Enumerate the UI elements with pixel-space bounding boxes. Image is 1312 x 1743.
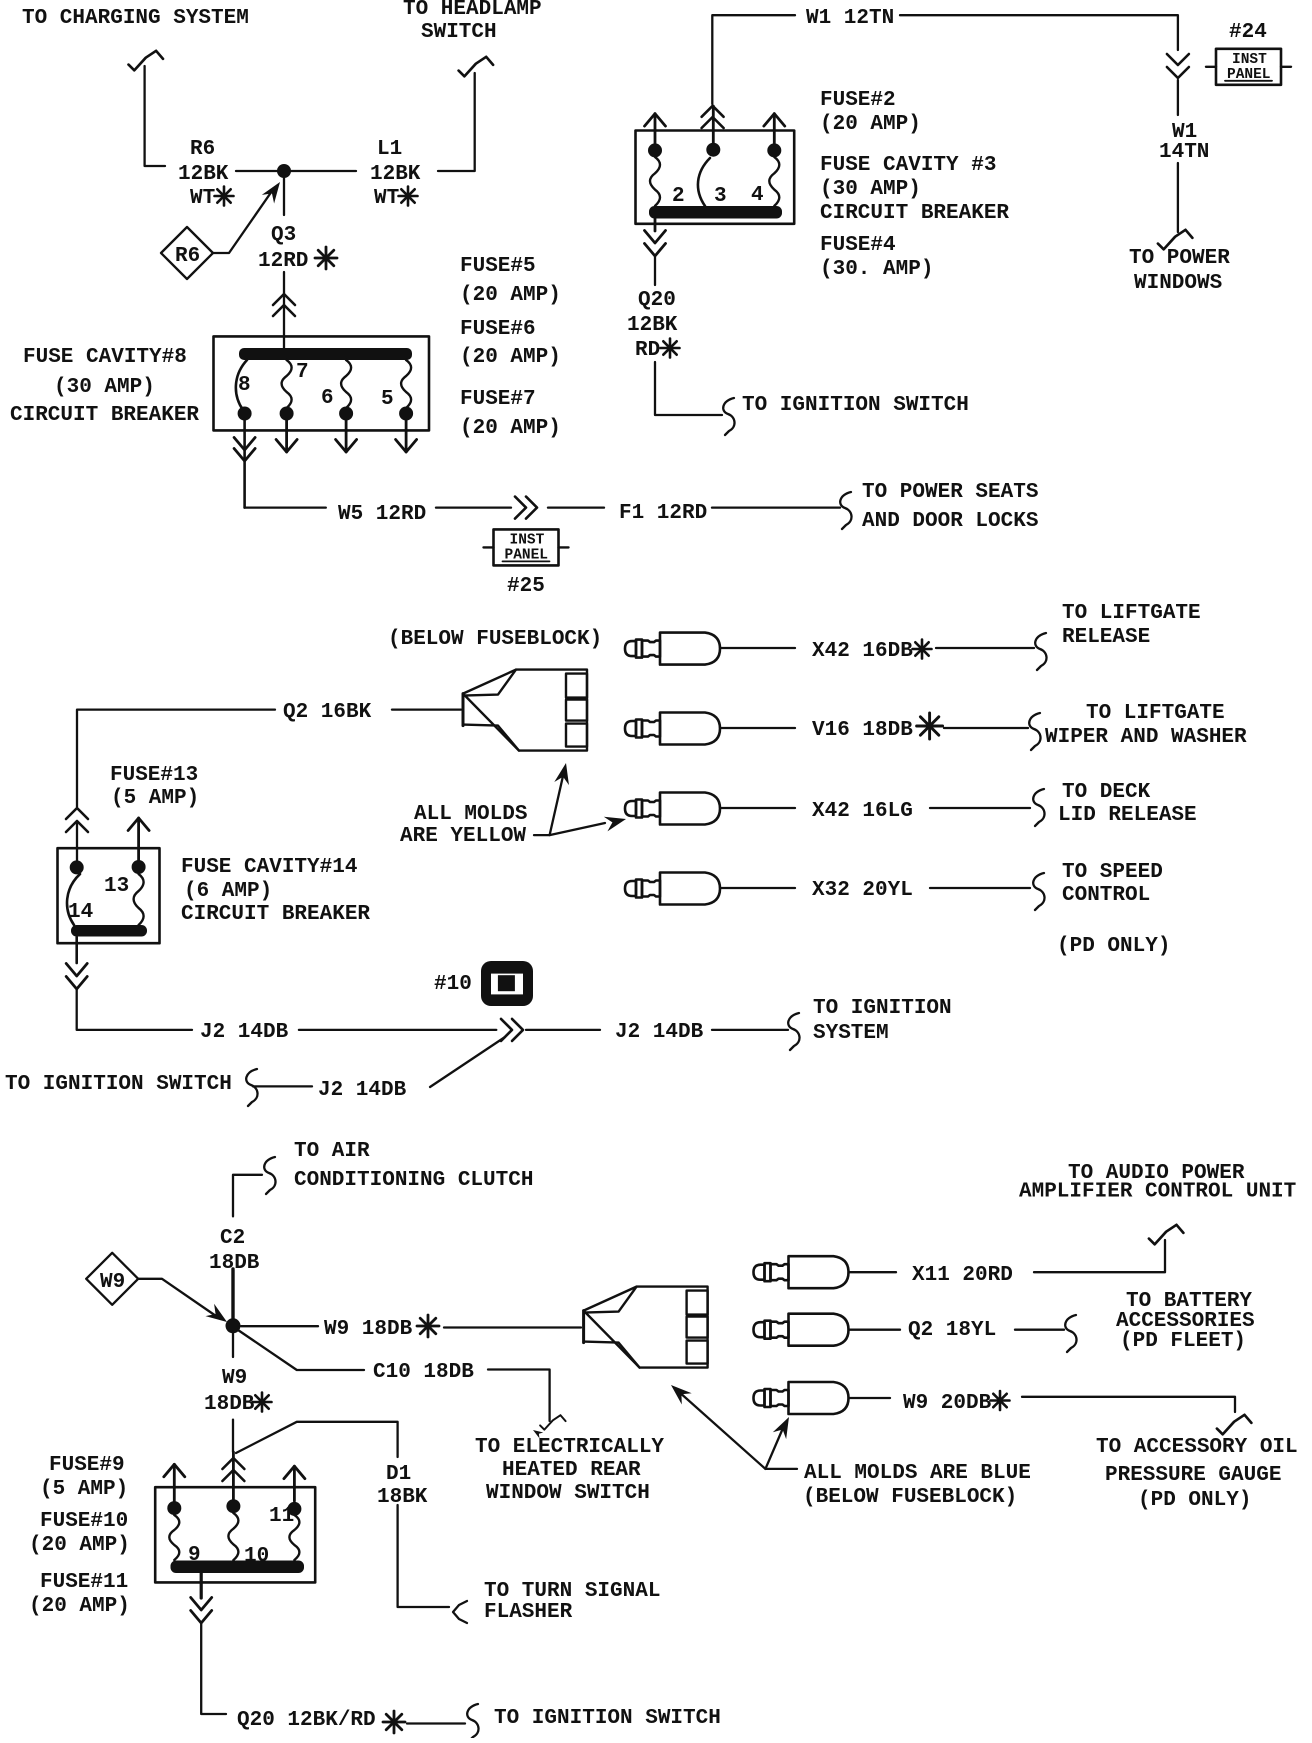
svg-text:J2 14DB: J2 14DB [318, 1079, 407, 1102]
arrow up fuse 13 [128, 818, 149, 860]
svg-text:HEATED REAR: HEATED REAR [502, 1459, 641, 1482]
label FUSE#2 (20 AMP) [820, 89, 921, 136]
svg-text:INST: INST [1232, 52, 1267, 68]
svg-text:FUSE#11: FUSE#11 [40, 1571, 128, 1594]
wire W9 18DB* down from junction [232, 1333, 234, 1452]
svg-text:FLASHER: FLASHER [484, 1601, 573, 1624]
svg-text:2: 2 [672, 185, 685, 208]
svg-text:ALL MOLDS: ALL MOLDS [414, 803, 527, 826]
label D1 18BK [377, 1463, 428, 1509]
wire C2 18DB with bracket [233, 1157, 276, 1216]
circuit breaker cavity 14 element [67, 874, 93, 925]
svg-text:FUSE#7: FUSE#7 [460, 388, 536, 411]
svg-text:FUSE#6: FUSE#6 [460, 318, 536, 341]
svg-text:Q2 16BK: Q2 16BK [283, 701, 372, 724]
bullet connector V16 18DB [625, 713, 795, 745]
svg-text:RD: RD [635, 339, 660, 362]
svg-text:(5 AMP): (5 AMP) [111, 787, 199, 810]
svg-text:WT: WT [374, 187, 399, 210]
node: TO AIR CONDITIONING CLUTCH [294, 1140, 533, 1192]
node: TO AUDIO POWER AMPLIFIER CONTROL UNIT [1019, 1162, 1296, 1204]
svg-text:PRESSURE GAUGE: PRESSURE GAUGE [1105, 1464, 1281, 1487]
svg-text:#24: #24 [1229, 21, 1267, 44]
arrows up fuse 2 and 4 [645, 114, 785, 145]
wire segment to inline connector [436, 497, 537, 519]
svg-text:J2 14DB: J2 14DB [200, 1021, 289, 1044]
label W1 12TN [806, 7, 894, 30]
svg-text:Q20: Q20 [638, 289, 676, 312]
fuse 6 element [321, 360, 351, 410]
label W1 14TN [1159, 121, 1209, 164]
fuse 11 element [269, 1505, 299, 1560]
label X11 20RD [912, 1264, 1013, 1287]
label J2 14DB (bottom) [318, 1079, 407, 1102]
svg-text:7: 7 [296, 361, 309, 384]
svg-text:(30. AMP): (30. AMP) [820, 258, 933, 281]
svg-text:W1 12TN: W1 12TN [806, 7, 894, 30]
svg-text:14: 14 [68, 901, 93, 924]
label V16 18DB * [812, 713, 943, 742]
svg-text:#10: #10 [434, 973, 472, 996]
node: TO IGNITION SWITCH (middle) with bracket [5, 1069, 258, 1106]
svg-text:FUSE#4: FUSE#4 [820, 234, 896, 257]
connector mold (yellow) 3-slot [463, 670, 587, 751]
svg-text:(6 AMP): (6 AMP) [184, 880, 272, 903]
svg-text:TO IGNITION SWITCH: TO IGNITION SWITCH [5, 1073, 232, 1096]
wire J2 14DB from block 3 [66, 937, 192, 1030]
label F1 12RD [619, 502, 707, 525]
svg-text:TO AIR: TO AIR [294, 1140, 370, 1163]
svg-text:12BK: 12BK [370, 163, 421, 186]
svg-text:LID RELEASE: LID RELEASE [1058, 804, 1197, 827]
label FUSE#6 (20 AMP) [460, 318, 561, 369]
node: TO DECK LID RELEASE [1058, 781, 1197, 827]
svg-text:10: 10 [244, 1545, 269, 1568]
svg-text:TO HEADLAMP: TO HEADLAMP [403, 0, 542, 21]
bullet connector X42 16LG [625, 793, 795, 825]
svg-text:CONTROL: CONTROL [1062, 884, 1150, 907]
fuse block 2: fuses 2,4 / cavity 3 [636, 131, 795, 224]
svg-text:FUSE#5: FUSE#5 [460, 255, 536, 278]
node: TO HEADLAMP SWITCH label [403, 0, 542, 44]
label X42 16LG [812, 800, 913, 823]
svg-text:TO LIFTGATE: TO LIFTGATE [1086, 702, 1225, 725]
svg-text:W9 18DB: W9 18DB [324, 1318, 413, 1341]
svg-text:FUSE#9: FUSE#9 [49, 1454, 125, 1477]
fuse terminal dots in block [238, 407, 414, 421]
label Q3 12RD * [258, 224, 337, 273]
fuse 9 element [169, 1515, 200, 1567]
svg-text:W5 12RD: W5 12RD [338, 503, 426, 526]
svg-text:C2: C2 [220, 1227, 245, 1250]
svg-text:CONDITIONING CLUTCH: CONDITIONING CLUTCH [294, 1169, 533, 1192]
label R6 12BK WT* [178, 138, 234, 210]
svg-text:V16 18DB: V16 18DB [812, 719, 913, 742]
svg-text:9: 9 [188, 1544, 201, 1567]
wire to liftgate wiper and washer [944, 713, 1041, 750]
svg-text:#25: #25 [507, 575, 545, 598]
svg-text:(20 AMP): (20 AMP) [29, 1534, 130, 1557]
svg-text:18DB: 18DB [204, 1393, 255, 1416]
svg-text:TO DECK: TO DECK [1062, 781, 1151, 804]
svg-text:12RD: 12RD [258, 250, 308, 273]
svg-text:12BK: 12BK [178, 163, 229, 186]
bullet connector Q2 18YL [754, 1314, 901, 1346]
svg-text:(20 AMP): (20 AMP) [460, 417, 561, 440]
svg-text:FUSE#10: FUSE#10 [40, 1510, 128, 1533]
wire W5 12RD from cavity 8 [234, 419, 326, 508]
wire to deck lid release [930, 789, 1045, 826]
svg-text:(5 AMP): (5 AMP) [40, 1478, 128, 1501]
svg-text:TO ACCESSORY OIL: TO ACCESSORY OIL [1096, 1436, 1298, 1459]
svg-text:INST: INST [510, 532, 545, 548]
wire W1 12TN horizontal [712, 15, 1178, 104]
arrows into bottom fuse block [164, 1452, 305, 1501]
bullet connector X42 16DB [625, 633, 795, 665]
svg-text:CIRCUIT BREAKER: CIRCUIT BREAKER [10, 404, 199, 427]
svg-text:CIRCUIT BREAKER: CIRCUIT BREAKER [181, 903, 370, 926]
svg-text:L1: L1 [377, 138, 402, 161]
svg-text:TO ELECTRICALLY: TO ELECTRICALLY [475, 1436, 664, 1459]
node: TO ELECTRICALLY HEATED REAR WINDOW SWITCH [475, 1436, 664, 1505]
wire to power windows with fork [1158, 163, 1193, 249]
connector mold (blue) 3-slot [584, 1287, 708, 1368]
svg-text:(PD FLEET): (PD FLEET) [1120, 1330, 1246, 1353]
svg-text:RELEASE: RELEASE [1062, 626, 1150, 649]
label W9 18DB* [204, 1367, 272, 1416]
terminal dots block 4 [167, 1499, 301, 1516]
inline connector chevrons on W1 [1167, 54, 1189, 115]
connector ref diamond W9 with arrow [86, 1253, 231, 1328]
connector ref diamond R6 with arrow to junction [161, 178, 286, 279]
wire to headlamp switch with off-page fork [438, 57, 493, 171]
node: TO CHARGING SYSTEM label [22, 7, 249, 30]
label X32 20YL [812, 879, 913, 902]
svg-text:(BELOW FUSEBLOCK): (BELOW FUSEBLOCK) [388, 628, 602, 651]
wire C10 18DB diagonal [238, 1330, 566, 1438]
svg-text:(BELOW FUSEBLOCK): (BELOW FUSEBLOCK) [803, 1486, 1017, 1509]
label J2 14DB (right) [615, 1021, 704, 1044]
svg-text:R6: R6 [175, 245, 200, 268]
wire W9 18DB to mold (right) [241, 1326, 581, 1327]
svg-text:12BK: 12BK [627, 314, 678, 337]
label ALL MOLDS ARE YELLOW with arrows [400, 761, 628, 848]
label Q20 12BK RD* [627, 289, 680, 362]
svg-text:AMPLIFIER CONTROL UNIT: AMPLIFIER CONTROL UNIT [1019, 1181, 1296, 1204]
label C10 18DB [373, 1361, 474, 1384]
svg-text:TO SPEED: TO SPEED [1062, 861, 1163, 884]
circuit breaker cavity 3 element [698, 158, 727, 208]
svg-text:TO LIFTGATE: TO LIFTGATE [1062, 602, 1201, 625]
svg-text:ALL MOLDS ARE BLUE: ALL MOLDS ARE BLUE [804, 1462, 1031, 1485]
svg-text:SYSTEM: SYSTEM [813, 1022, 889, 1045]
svg-text:Q2 18YL: Q2 18YL [908, 1319, 996, 1342]
label FUSE#5 (20 AMP) [460, 255, 561, 307]
terminal dots block 3 [70, 860, 146, 874]
wire to power seats with bracket [712, 492, 852, 529]
fuse terminal dots block 2 [648, 143, 781, 158]
svg-text:TO POWER SEATS: TO POWER SEATS [862, 481, 1038, 504]
svg-text:R6: R6 [190, 138, 215, 161]
label FUSE#11 (20 AMP) [29, 1571, 130, 1618]
arrow up cavity 3 with double chevron [702, 106, 724, 145]
svg-text:WINDOW SWITCH: WINDOW SWITCH [486, 1482, 650, 1505]
svg-text:WIPER AND WASHER: WIPER AND WASHER [1045, 726, 1247, 749]
label FUSE#13 (5 AMP) [110, 764, 199, 810]
label W9 20DB* [903, 1391, 1010, 1415]
wire C2 to junction (bold) [231, 1269, 234, 1325]
label Q20 12BK/RD * [237, 1709, 405, 1733]
svg-text:(20 AMP): (20 AMP) [460, 284, 561, 307]
svg-text:8: 8 [238, 374, 251, 397]
fuse 10 element [228, 1513, 269, 1568]
wire into fuse 13/14 block [66, 808, 88, 861]
wire Q20 12BK RD* down from block 2 [645, 218, 735, 435]
node: TO POWER SEATS AND DOOR LOCKS [862, 481, 1038, 533]
wire to audio power amplifier with fork [1034, 1225, 1183, 1272]
svg-text:4: 4 [751, 184, 764, 207]
svg-text:AND DOOR LOCKS: AND DOOR LOCKS [862, 510, 1038, 533]
node: TO IGNITION SWITCH (top) [742, 394, 969, 417]
svg-text:F1 12RD: F1 12RD [619, 502, 707, 525]
svg-text:CIRCUIT BREAKER: CIRCUIT BREAKER [820, 202, 1009, 225]
circuit breaker cavity 8 element [236, 360, 251, 410]
node: TO POWER WINDOWS [1129, 247, 1230, 295]
svg-text:FUSE CAVITY #3: FUSE CAVITY #3 [820, 154, 996, 177]
wire to ignition system with bracket [712, 1013, 800, 1050]
label FUSE#4 (30. AMP) [820, 234, 933, 281]
label FUSE#7 (20 AMP) [460, 388, 561, 440]
node: TO ACCESSORY OIL PRESSURE GAUGE (PD ONLY) [1096, 1436, 1298, 1512]
svg-text:W9: W9 [222, 1367, 247, 1390]
wire Q3 12RD vertical from junction [273, 178, 295, 348]
label (BELOW FUSEBLOCK) [388, 628, 602, 651]
svg-text:W9 20DB: W9 20DB [903, 1392, 992, 1415]
svg-text:TO CHARGING SYSTEM: TO CHARGING SYSTEM [22, 7, 249, 30]
bullet connector W9 20DB [754, 1382, 891, 1414]
fuse block 3: cavity 13/14 [58, 848, 160, 943]
svg-text:C10 18DB: C10 18DB [373, 1361, 474, 1384]
svg-text:TO IGNITION SWITCH: TO IGNITION SWITCH [742, 394, 969, 417]
svg-text:WT: WT [190, 187, 215, 210]
wire F1 12RD segment [548, 506, 604, 508]
output arrows fuse 7,6,5 [276, 419, 417, 452]
svg-text:WINDOWS: WINDOWS [1134, 272, 1222, 295]
wire to liftgate release [936, 633, 1047, 670]
svg-text:X32 20YL: X32 20YL [812, 879, 913, 902]
wire L1 12BK segment [288, 170, 356, 172]
junction node dot (R6/L1/Q3) [277, 164, 291, 178]
wire to charging system with off-page fork [129, 51, 166, 166]
svg-text:D1: D1 [386, 1463, 411, 1486]
inline connector INST PANEL #25 [484, 529, 569, 598]
label FUSE#10 (20 AMP) [29, 1510, 130, 1557]
wire J2 14DB middle with inline connector [299, 1019, 600, 1041]
svg-text:6: 6 [321, 387, 334, 410]
wire to ignition switch (bottom) [407, 1704, 479, 1741]
svg-text:(30 AMP): (30 AMP) [54, 376, 155, 399]
fuse block 4: fuses 9,10,11 [155, 1487, 315, 1582]
node: TO TURN SIGNAL FLASHER [484, 1580, 660, 1624]
svg-text:Q3: Q3 [271, 224, 296, 247]
svg-text:(20 AMP): (20 AMP) [29, 1595, 130, 1618]
svg-text:W9: W9 [100, 1271, 125, 1294]
svg-text:FUSE#13: FUSE#13 [110, 764, 198, 787]
svg-text:TO IGNITION: TO IGNITION [813, 997, 952, 1020]
fuse 5 element [381, 360, 411, 411]
wire Q20 12BK/RD down from block 4 [191, 1573, 226, 1714]
svg-text:(20 AMP): (20 AMP) [460, 346, 561, 369]
wire to battery accessories with bracket [1015, 1315, 1077, 1352]
label FUSE CAVITY#8 (30 AMP) CIRCUIT BREAKER [10, 346, 199, 427]
svg-text:(PD ONLY): (PD ONLY) [1057, 935, 1170, 958]
label Q2 18YL [908, 1319, 996, 1342]
node: TO LIFTGATE RELEASE [1062, 602, 1201, 649]
label L1 12BK WT* [370, 138, 421, 210]
label FUSE CAVITY #3 (30 AMP) CIRCUIT BREAKER [820, 154, 1009, 225]
svg-text:3: 3 [714, 185, 727, 208]
bullet connector X11 20RD [754, 1256, 897, 1288]
svg-text:13: 13 [104, 875, 129, 898]
grommet #10 icon [434, 961, 533, 1006]
svg-text:FUSE CAVITY#8: FUSE CAVITY#8 [23, 346, 187, 369]
fuse 7 element [282, 360, 309, 408]
svg-text:X42 16DB: X42 16DB [812, 640, 913, 663]
svg-text:ARE YELLOW: ARE YELLOW [400, 825, 526, 848]
node: TO SPEED CONTROL [1062, 861, 1163, 907]
node: TO LIFTGATE WIPER AND WASHER [1045, 702, 1247, 749]
fuse block: fuse cavity #8 / fuses 5-7 [214, 336, 430, 430]
svg-text:(PD ONLY): (PD ONLY) [1138, 1489, 1251, 1512]
label X42 16DB* [812, 640, 932, 664]
junction node dot W9 [226, 1318, 241, 1333]
wire to speed control [930, 873, 1045, 910]
svg-text:X42 16LG: X42 16LG [812, 800, 913, 823]
node: TO BATTERY ACCESSORIES (PD FLEET) [1116, 1290, 1255, 1353]
fuse 4 element [751, 157, 779, 207]
svg-text:14TN: 14TN [1159, 141, 1209, 164]
label W5 12RD [338, 503, 426, 526]
wire R6 12BK segment [236, 170, 281, 172]
label Q2 16BK [283, 701, 372, 724]
svg-text:SWITCH: SWITCH [421, 21, 497, 44]
label C2 18DB [209, 1227, 260, 1275]
wire D1 18BK branch [236, 1422, 467, 1623]
svg-text:(20 AMP): (20 AMP) [820, 113, 921, 136]
label (PD ONLY) middle [1057, 935, 1170, 958]
label J2 14DB (left) [200, 1021, 289, 1044]
svg-text:FUSE CAVITY#14: FUSE CAVITY#14 [181, 856, 357, 879]
svg-text:TO IGNITION SWITCH: TO IGNITION SWITCH [494, 1707, 721, 1730]
svg-text:FUSE#2: FUSE#2 [820, 89, 896, 112]
node: TO IGNITION SYSTEM [813, 997, 952, 1045]
svg-text:TO TURN SIGNAL: TO TURN SIGNAL [484, 1580, 660, 1603]
wire to accessory oil pressure gauge with fork [1022, 1397, 1251, 1435]
svg-text:Q20 12BK/RD: Q20 12BK/RD [237, 1709, 376, 1732]
node: TO IGNITION SWITCH (bottom) [494, 1707, 721, 1730]
bullet connector X32 20YL [625, 873, 795, 905]
svg-text:5: 5 [381, 388, 394, 411]
wire Q2 16BK to mold [77, 710, 461, 807]
fuse 13 element [104, 874, 144, 925]
label ALL MOLDS ARE BLUE (BELOW FUSEBLOCK) with arrows [666, 1379, 1031, 1509]
label FUSE#9 (5 AMP) [40, 1454, 128, 1501]
svg-text:18BK: 18BK [377, 1486, 428, 1509]
svg-text:X11 20RD: X11 20RD [912, 1264, 1013, 1287]
wire J2 14DB diagonal [253, 1037, 505, 1087]
fuse 2 element [650, 157, 685, 208]
svg-text:J2 14DB: J2 14DB [615, 1021, 704, 1044]
label FUSE CAVITY#14 (6 AMP) CIRCUIT BREAKER [181, 856, 370, 926]
svg-text:(30 AMP): (30 AMP) [820, 178, 921, 201]
svg-text:TO POWER: TO POWER [1129, 247, 1230, 270]
label W9 18DB * [324, 1315, 439, 1341]
inline connector INST PANEL #24 [1206, 21, 1291, 85]
